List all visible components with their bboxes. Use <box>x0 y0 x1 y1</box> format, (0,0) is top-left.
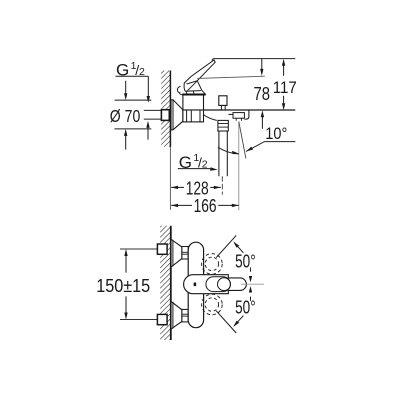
lower supply extension line <box>120 319 159 321</box>
wall hatch (plan view) <box>160 226 171 340</box>
dim 78 upper arrow <box>261 59 263 70</box>
dim 150+-15 line lower part <box>125 296 127 313</box>
dim 117 line upper arrow <box>282 59 285 66</box>
handle plan outline <box>184 275 247 294</box>
G1/2 leader down with arrow <box>147 76 149 96</box>
svg-text:50°: 50° <box>235 252 256 272</box>
nut facet lines <box>186 110 188 122</box>
dim 117 line lower arrow <box>283 96 285 104</box>
supply pipe through wall <box>144 109 162 111</box>
handle centerline to the right <box>241 283 264 285</box>
faucet body block <box>183 94 204 110</box>
wall face line (plan view) <box>170 226 172 340</box>
lower union square <box>157 314 167 324</box>
spout bottom shoulder <box>228 113 233 115</box>
lower dashed circle outer <box>202 294 223 315</box>
dome trapezoid sides <box>186 91 194 94</box>
10 deg angle arc <box>218 147 239 154</box>
escutcheon cone <box>171 100 183 130</box>
svg-text:10°: 10° <box>265 124 287 143</box>
arc arrowhead <box>232 151 239 154</box>
leader arrowhead <box>246 147 253 152</box>
aerator <box>233 113 244 119</box>
lower 45deg swing line <box>216 311 236 333</box>
dia70 top extension line <box>115 99 152 101</box>
svg-text:150±15: 150±15 <box>96 276 150 296</box>
label G 1/2 (bottom) <box>179 152 208 172</box>
svg-text:117: 117 <box>273 78 297 97</box>
dim 78 lower arrow <box>261 110 264 117</box>
body nut zone <box>183 110 204 122</box>
lever handle bar <box>184 60 215 85</box>
handle inner stadium <box>206 277 231 292</box>
diverter knob <box>219 96 227 106</box>
dia70 upper arrow <box>125 81 127 94</box>
10 deg leader line with landing <box>246 142 295 152</box>
rod width dim upper arrow <box>250 268 252 272</box>
tilted stream line (10 deg) <box>239 122 246 159</box>
upper 45deg swing line <box>216 235 236 257</box>
svg-text:78: 78 <box>254 84 271 104</box>
upper dashed circle inner <box>205 257 218 270</box>
upper dashed circle outer <box>202 254 223 275</box>
lower 50deg leader <box>234 316 243 326</box>
handle front lip curl <box>177 86 180 93</box>
upper S-union cone <box>171 239 182 267</box>
paddle interior fold line <box>187 81 197 91</box>
handle paddle body <box>184 83 201 91</box>
hose centerline <box>221 176 223 194</box>
aerator outlet ticks <box>236 118 241 121</box>
pivot mark <box>194 282 197 286</box>
spout outlet vertical extension line <box>238 122 240 211</box>
dim 150+-15 line upper part <box>124 249 127 256</box>
upper 50deg leader <box>234 243 243 253</box>
label G 1/2 (top) <box>116 60 145 80</box>
dia70 lower arrow <box>124 129 127 136</box>
shower hose collar <box>218 120 228 131</box>
second reference line (handle rest level) <box>197 76 265 78</box>
lower union nut <box>182 309 188 322</box>
svg-text:Ø 70: Ø 70 <box>110 106 141 126</box>
dim 128 line <box>171 186 184 188</box>
upper supply extension line <box>120 248 159 250</box>
dia70 bottom extension line <box>115 128 152 130</box>
lower S-union cone <box>171 301 182 329</box>
spout top edge and reference line to the right <box>204 109 296 111</box>
lower dashed circle inner <box>205 298 218 311</box>
hook below curl <box>179 93 185 95</box>
wall face extension line down to dims <box>169 147 171 210</box>
paddle right profile to dome <box>197 81 206 95</box>
faucet body capsule <box>188 242 203 328</box>
shower hose tube <box>218 131 220 176</box>
G1/2 bottom underline + leader <box>178 168 212 171</box>
rod width dim lower arrow <box>249 286 252 292</box>
svg-text:50°: 50° <box>235 297 256 317</box>
upper union nut <box>182 247 188 260</box>
spout underside dip curve to hose <box>204 115 217 121</box>
G1/2 underline <box>116 75 149 77</box>
top reference line (handle tip level) <box>213 58 295 60</box>
diverter knob stem <box>221 105 225 110</box>
body top heavy edge <box>182 94 205 96</box>
handle button circle <box>218 278 231 291</box>
svg-text:166: 166 <box>194 196 217 216</box>
upper union square <box>157 244 167 254</box>
union nut square on wall <box>161 110 169 121</box>
dim 166 line <box>171 204 192 206</box>
wall face line (side view) <box>169 71 171 147</box>
G1/2 second arrow (up at pipe bottom) <box>146 121 149 128</box>
spout end cap <box>244 110 249 119</box>
wall hatch (side view) <box>161 71 170 147</box>
